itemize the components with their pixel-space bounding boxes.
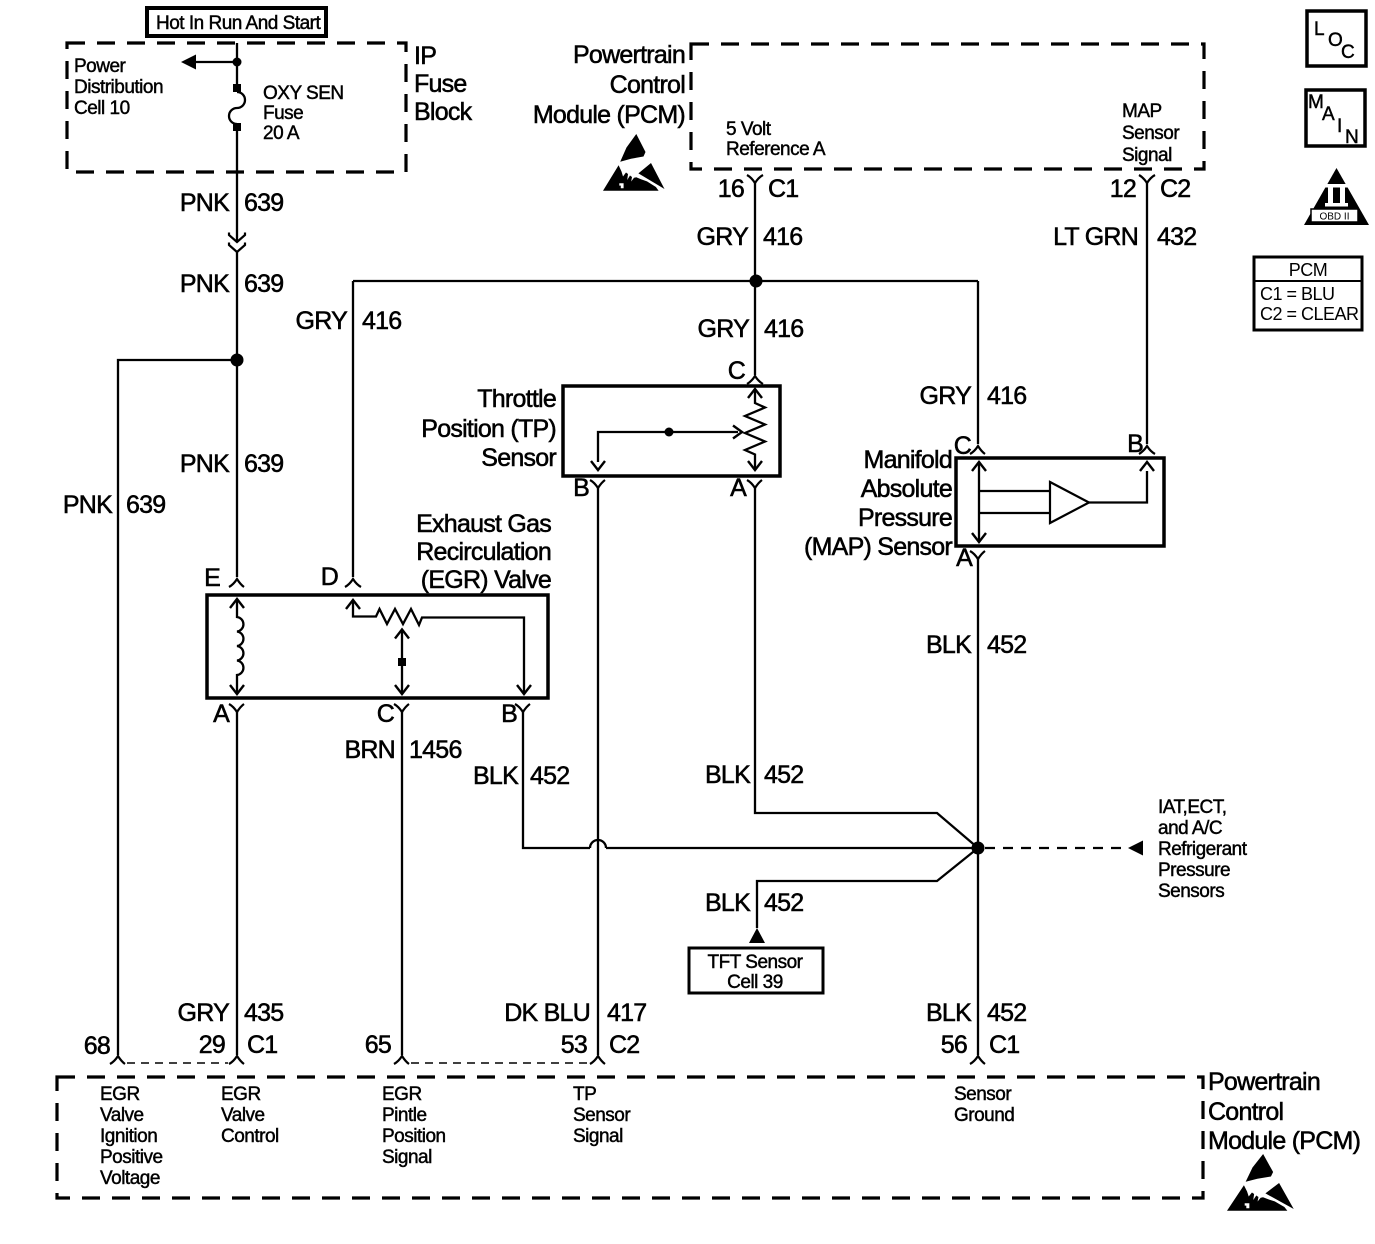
svg-text:Exhaust Gas: Exhaust Gas xyxy=(416,510,551,538)
svg-text:BLK: BLK xyxy=(705,761,751,789)
node: fuse feed junction xyxy=(233,58,242,67)
ESD symbol (bottom) xyxy=(1227,1154,1294,1211)
svg-text:EGR: EGR xyxy=(382,1084,422,1105)
svg-text:GRY: GRY xyxy=(697,223,750,251)
svg-text:N: N xyxy=(1345,127,1358,148)
svg-text:Recirculation: Recirculation xyxy=(416,538,551,566)
svg-text:639: 639 xyxy=(244,270,283,298)
pin A of EGR valve xyxy=(229,704,244,712)
pin 56 C1 of PCM xyxy=(970,1056,985,1064)
svg-text:(MAP) Sensor: (MAP) Sensor xyxy=(804,533,952,561)
svg-text:E: E xyxy=(204,564,220,592)
svg-text:IAT,ECT,: IAT,ECT, xyxy=(1158,797,1227,818)
pin 16 C1 of PCM xyxy=(747,175,763,183)
svg-text:5 Volt: 5 Volt xyxy=(726,119,772,140)
svg-text:Module (PCM): Module (PCM) xyxy=(533,101,685,129)
svg-text:C1 = BLU: C1 = BLU xyxy=(1260,284,1335,304)
svg-text:BLK: BLK xyxy=(926,999,972,1027)
svg-text:A: A xyxy=(213,700,230,728)
pin C of MAP sensor xyxy=(970,446,985,454)
Powertrain Control Module (PCM) dashed box (top) xyxy=(691,44,1204,169)
pin 65 of PCM xyxy=(394,1056,409,1064)
wire: dashed BLK 452 to IAT ECT AC sensors xyxy=(985,847,1126,849)
pin 29 C1 of PCM xyxy=(229,1056,244,1064)
svg-text:12: 12 xyxy=(1110,175,1136,203)
svg-text:639: 639 xyxy=(244,189,283,217)
svg-text:PNK: PNK xyxy=(63,491,113,519)
svg-text:C1: C1 xyxy=(768,175,798,203)
svg-text:Signal: Signal xyxy=(573,1126,623,1147)
pin B of EGR valve xyxy=(515,704,530,712)
svg-text:EGR: EGR xyxy=(100,1084,140,1105)
wire: BLK 452 from TP pin A to sensor ground junction xyxy=(755,488,978,848)
svg-text:OXY SEN: OXY SEN xyxy=(263,83,344,104)
legend: PCM connector colors xyxy=(1254,257,1362,330)
pin D of EGR valve xyxy=(345,579,361,587)
Powertrain Control Module (PCM) dashed box (bottom) xyxy=(57,1077,1203,1198)
wire: PNK 639 from fuse to in-line connector xyxy=(236,131,238,241)
wire: BLK 452 from EGR pin B to sensor ground junction xyxy=(523,712,978,848)
svg-text:C: C xyxy=(1341,42,1354,63)
svg-text:Hot In Run And Start: Hot In Run And Start xyxy=(156,13,321,34)
label: Hot In Run And Start box xyxy=(147,8,326,36)
icon: LOC box xyxy=(1307,11,1366,66)
pin C of EGR valve xyxy=(394,704,409,712)
svg-text:Valve: Valve xyxy=(100,1105,144,1126)
svg-text:IP: IP xyxy=(414,42,436,70)
svg-text:A: A xyxy=(956,544,973,572)
node: wiper junction dot xyxy=(665,428,674,437)
svg-text:Block: Block xyxy=(414,98,473,126)
svg-text:BLK: BLK xyxy=(473,762,519,790)
svg-text:C2: C2 xyxy=(609,1031,639,1059)
svg-text:Powertrain: Powertrain xyxy=(573,41,685,69)
component: MAP Sensor box xyxy=(956,458,1164,546)
connector face dashes between pin 68 and pin 29 xyxy=(127,1062,228,1064)
svg-text:C1: C1 xyxy=(247,1031,277,1059)
svg-text:416: 416 xyxy=(987,382,1026,410)
node: GRY 416 junction xyxy=(750,275,763,288)
off-page arrow to IAT ECT AC refrigerant pressure sensors xyxy=(1128,841,1143,856)
svg-text:Distribution: Distribution xyxy=(74,77,163,98)
svg-text:GRY: GRY xyxy=(698,315,751,343)
fuse: OXY SEN Fuse 20 A xyxy=(229,84,245,131)
svg-text:Manifold: Manifold xyxy=(864,446,953,474)
component: Throttle Position (TP) Sensor box xyxy=(563,386,780,476)
icon: OBD II triangle xyxy=(1304,168,1369,225)
svg-text:432: 432 xyxy=(1157,223,1196,251)
svg-text:20 A: 20 A xyxy=(263,123,300,144)
svg-text:Sensor: Sensor xyxy=(481,444,556,472)
wire: PNK 639 branch to PCM pin 68 xyxy=(118,360,237,1055)
svg-text:Sensor: Sensor xyxy=(954,1084,1012,1105)
svg-text:and A/C: and A/C xyxy=(1158,818,1222,839)
pin E of EGR valve xyxy=(229,579,244,587)
svg-text:MAP: MAP xyxy=(1122,101,1162,122)
wire: branch to power distribution xyxy=(190,61,237,63)
svg-text:Signal: Signal xyxy=(382,1147,432,1168)
pin 12 C2 of PCM xyxy=(1139,175,1155,183)
svg-text:GRY: GRY xyxy=(178,999,231,1027)
svg-text:Powertrain: Powertrain xyxy=(1208,1068,1320,1096)
icon: MAIN box xyxy=(1306,90,1365,148)
svg-text:Position: Position xyxy=(382,1126,446,1147)
svg-text:LT GRN: LT GRN xyxy=(1053,223,1138,251)
svg-text:GRY: GRY xyxy=(920,382,973,410)
svg-text:Position (TP): Position (TP) xyxy=(421,415,556,443)
svg-text:416: 416 xyxy=(764,315,803,343)
pin B of MAP sensor xyxy=(1139,446,1155,454)
wire: BRN 1456 from EGR pin C to PCM pin 65 xyxy=(401,712,403,1055)
svg-text:Fuse: Fuse xyxy=(414,70,467,98)
in-line connector on PNK 639 xyxy=(229,233,245,253)
potentiometer inside TP sensor xyxy=(745,389,765,470)
svg-text:B: B xyxy=(501,700,517,728)
svg-text:53: 53 xyxy=(561,1031,587,1059)
svg-text:Module (PCM): Module (PCM) xyxy=(1208,1127,1360,1155)
resistor network inside EGR valve xyxy=(346,600,531,694)
svg-text:(EGR) Valve: (EGR) Valve xyxy=(421,566,551,594)
reference: TFT Sensor Cell 39 box xyxy=(689,948,823,993)
svg-text:TFT Sensor: TFT Sensor xyxy=(708,952,804,973)
svg-text:C: C xyxy=(954,432,972,460)
svg-text:Control: Control xyxy=(610,71,685,99)
svg-text:Cell 10: Cell 10 xyxy=(74,98,130,119)
svg-text:Power: Power xyxy=(74,56,127,77)
svg-text:B: B xyxy=(573,474,589,502)
svg-text:452: 452 xyxy=(764,761,803,789)
pin B of TP sensor xyxy=(590,480,605,488)
svg-text:Sensor: Sensor xyxy=(573,1105,631,1126)
wire: BLK 452 from junction to PCM pin 56 xyxy=(977,848,979,1055)
solenoid coil inside EGR valve xyxy=(230,599,244,694)
svg-text:Throttle: Throttle xyxy=(477,385,556,413)
svg-text:Pintle: Pintle xyxy=(382,1105,427,1126)
pin 68 of PCM xyxy=(110,1056,125,1064)
svg-text:PNK: PNK xyxy=(180,189,230,217)
wire: feed from Hot In Run And Start into fuse block xyxy=(236,43,238,85)
svg-text:Sensors: Sensors xyxy=(1158,881,1224,902)
svg-text:Refrigerant: Refrigerant xyxy=(1158,839,1248,860)
svg-text:29: 29 xyxy=(199,1031,225,1059)
svg-text:416: 416 xyxy=(362,307,401,335)
svg-text:639: 639 xyxy=(244,450,283,478)
svg-text:BLK: BLK xyxy=(705,889,751,917)
svg-text:C: C xyxy=(377,700,395,728)
off-page arrow to TFT sensor xyxy=(749,928,765,943)
wire: GRY 435 from EGR pin A to PCM pin 29 xyxy=(236,712,238,1055)
svg-text:Cell 39: Cell 39 xyxy=(727,972,783,993)
amplifier inside MAP sensor xyxy=(979,462,1154,523)
svg-text:417: 417 xyxy=(607,999,646,1027)
wiper arm inside TP sensor xyxy=(591,426,742,471)
svg-text:435: 435 xyxy=(244,999,283,1027)
svg-text:Voltage: Voltage xyxy=(100,1168,160,1189)
svg-text:65: 65 xyxy=(365,1031,391,1059)
wire: PNK 639 from connector to EGR valve pin E xyxy=(236,252,238,577)
svg-text:68: 68 xyxy=(84,1032,110,1060)
svg-text:BLK: BLK xyxy=(926,631,972,659)
wire: LT GRN 432 from PCM pin 12 to MAP sensor pin B xyxy=(1146,183,1148,444)
wire: BLK 452 branch to TFT sensor xyxy=(757,848,978,928)
svg-text:416: 416 xyxy=(763,223,802,251)
svg-text:EGR: EGR xyxy=(221,1084,261,1105)
pin C of TP sensor xyxy=(747,376,763,384)
svg-text:452: 452 xyxy=(530,762,569,790)
wire: GRY 416 branch down to EGR pin D xyxy=(352,281,354,577)
wire: GRY 416 from PCM pin 16 to junction xyxy=(754,183,756,375)
wire: GRY 416 distribution bus xyxy=(353,280,978,282)
svg-text:C2: C2 xyxy=(1160,175,1190,203)
svg-text:1456: 1456 xyxy=(409,736,462,764)
svg-text:OBD II: OBD II xyxy=(1319,212,1349,223)
wire: GRY 416 branch down to MAP pin C xyxy=(977,281,979,444)
wire: DK BLU 417 from TP pin B to PCM pin 53 xyxy=(597,488,599,1055)
svg-text:C2 = CLEAR: C2 = CLEAR xyxy=(1260,304,1359,324)
node: PNK 639 branch junction xyxy=(231,354,244,367)
svg-text:56: 56 xyxy=(941,1031,967,1059)
svg-text:L: L xyxy=(1314,19,1324,40)
svg-text:452: 452 xyxy=(987,631,1026,659)
svg-text:Valve: Valve xyxy=(221,1105,265,1126)
svg-text:Pressure: Pressure xyxy=(858,504,952,532)
svg-text:Ignition: Ignition xyxy=(100,1126,157,1147)
reference leg inside MAP sensor xyxy=(972,462,986,542)
svg-text:B: B xyxy=(1127,430,1143,458)
svg-text:Sensor: Sensor xyxy=(1122,123,1180,144)
svg-text:PCM: PCM xyxy=(1289,260,1328,280)
svg-text:Ground: Ground xyxy=(954,1105,1014,1126)
node: sensor ground junction xyxy=(972,842,985,855)
svg-text:Control: Control xyxy=(1208,1098,1283,1126)
wire: BLK 452 from MAP pin A to sensor ground junction xyxy=(977,559,979,848)
component: EGR Valve box xyxy=(207,595,548,698)
svg-text:I: I xyxy=(1337,116,1342,137)
svg-text:Positive: Positive xyxy=(100,1147,163,1168)
wire hop over TP signal wire xyxy=(590,840,606,848)
svg-text:PNK: PNK xyxy=(180,270,230,298)
svg-text:PNK: PNK xyxy=(180,450,230,478)
pin A of MAP sensor xyxy=(970,551,985,559)
svg-text:Fuse: Fuse xyxy=(263,103,303,124)
svg-text:A: A xyxy=(1322,104,1335,125)
svg-text:C: C xyxy=(728,357,746,385)
connector face dashes between pin 65 and pin 53 xyxy=(411,1062,589,1064)
svg-text:Reference A: Reference A xyxy=(726,139,826,160)
svg-text:Pressure: Pressure xyxy=(1158,860,1230,881)
pin 53 C2 of PCM xyxy=(590,1056,605,1064)
pin A of TP sensor xyxy=(747,480,762,488)
svg-text:A: A xyxy=(730,474,747,502)
svg-text:452: 452 xyxy=(987,999,1026,1027)
svg-text:16: 16 xyxy=(718,175,744,203)
svg-text:D: D xyxy=(321,563,338,591)
svg-text:Signal: Signal xyxy=(1122,145,1172,166)
svg-text:C1: C1 xyxy=(989,1031,1019,1059)
svg-text:639: 639 xyxy=(126,491,165,519)
svg-text:GRY: GRY xyxy=(296,307,349,335)
arrow to Power Distribution Cell 10 xyxy=(181,55,196,70)
svg-text:452: 452 xyxy=(764,889,803,917)
svg-text:Control: Control xyxy=(221,1126,279,1147)
IP Fuse Block dashed box xyxy=(67,43,406,172)
ESD symbol (top) xyxy=(603,134,665,191)
svg-text:DK BLU: DK BLU xyxy=(504,999,590,1027)
svg-text:Absolute: Absolute xyxy=(861,475,952,503)
pintle position wiper inside EGR valve xyxy=(395,630,409,695)
svg-text:TP: TP xyxy=(573,1084,596,1105)
svg-text:BRN: BRN xyxy=(344,736,395,764)
